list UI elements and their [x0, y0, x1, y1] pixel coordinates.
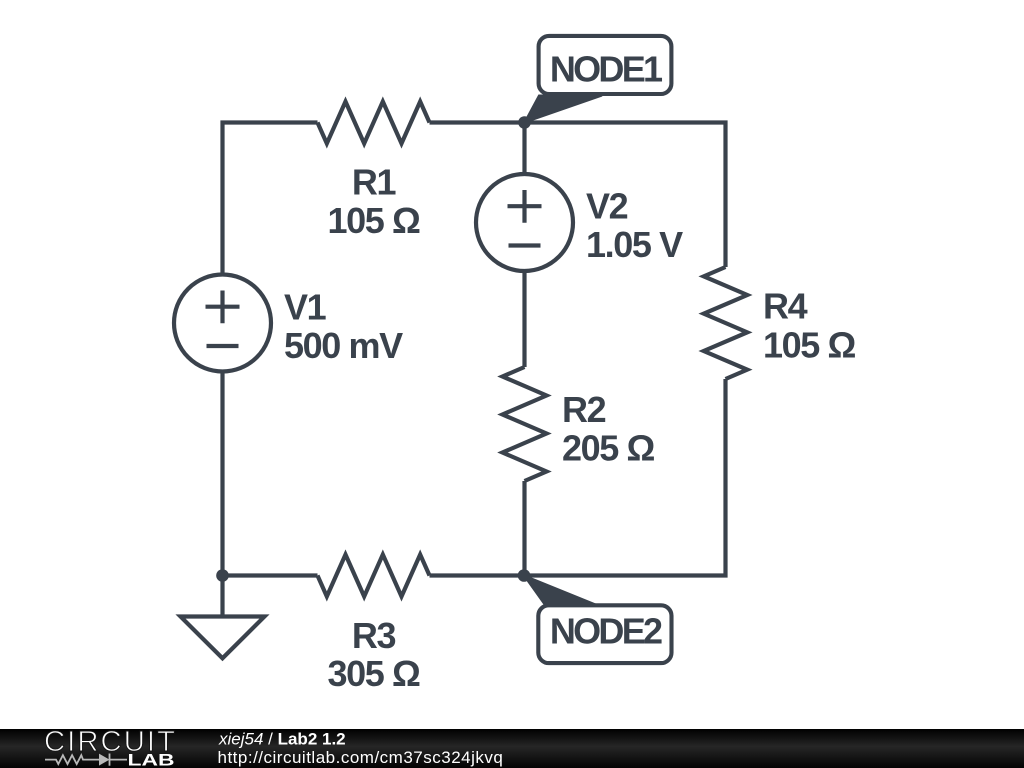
footer logo diode triangle — [99, 754, 110, 766]
svg-text:105 Ω: 105 Ω — [763, 325, 855, 366]
resistor R2 — [503, 367, 547, 481]
footer logo resistor-diode glyph — [45, 754, 127, 766]
label R1 value — [328, 162, 420, 242]
svg-text:V1: V1 — [284, 287, 327, 328]
voltage source V2 (circle) — [476, 174, 573, 271]
label V2 value — [586, 186, 683, 265]
wire middle bottom (R2 to NODE2) — [522, 481, 526, 576]
svg-text:R1: R1 — [352, 162, 397, 203]
wire ground stub — [220, 576, 224, 617]
svg-text:1.05 V: 1.05 V — [586, 224, 683, 265]
V1 plus sign — [206, 291, 240, 324]
svg-text:NODE1: NODE1 — [550, 49, 663, 90]
V2 minus sign — [509, 243, 541, 247]
label R2 value — [562, 389, 654, 468]
svg-text:xiej54 / Lab2 1.2: xiej54 / Lab2 1.2 — [218, 729, 346, 748]
wire bottom-left (R3 to left node) — [223, 573, 318, 577]
wire top-left (left vertical from V1 top up, then top horizontal to R1) — [223, 123, 318, 276]
ground symbol — [181, 617, 265, 659]
svg-text:500 mV: 500 mV — [284, 325, 403, 366]
NODE2 callout box — [538, 605, 671, 663]
svg-text:LAB: LAB — [128, 752, 175, 768]
voltage source V1 (circle) — [174, 275, 271, 372]
V2 plus sign — [508, 190, 542, 223]
footer bar — [0, 729, 1024, 768]
svg-text:305 Ω: 305 Ω — [328, 653, 420, 694]
svg-text:R2: R2 — [562, 389, 606, 430]
svg-text:R4: R4 — [763, 286, 808, 327]
svg-text:V2: V2 — [586, 186, 628, 227]
NODE1 callout wedge — [525, 96, 603, 123]
node junction dot at ground — [216, 569, 229, 582]
NODE1 callout box — [539, 36, 672, 94]
svg-text:205 Ω: 205 Ω — [562, 427, 654, 468]
wire middle top (NODE1 down to V2) — [522, 123, 526, 175]
resistor R4 — [704, 267, 748, 379]
svg-text:105 Ω: 105 Ω — [328, 200, 420, 241]
node junction dot NODE1 — [518, 116, 531, 129]
wire right-bottom (R4 down to bottom-right corner, then left to NODE2) — [430, 379, 726, 576]
resistor R3 — [318, 555, 430, 597]
svg-text:NODE2: NODE2 — [550, 611, 662, 652]
V1 minus sign — [207, 344, 239, 348]
NODE2 callout wedge — [524, 576, 597, 606]
label R4 value — [763, 286, 855, 366]
label V1 value — [284, 287, 403, 366]
svg-text:http://circuitlab.com/cm37sc32: http://circuitlab.com/cm37sc324jkvq — [218, 748, 504, 767]
resistor R1 — [318, 102, 430, 144]
wire middle (V2 bottom to R2) — [522, 271, 526, 367]
node junction dot NODE2 — [518, 569, 531, 582]
svg-text:R3: R3 — [352, 615, 396, 656]
label R3 value — [328, 615, 420, 694]
wire top-right (R1 to NODE1 to top-right corner, then down to R4) — [430, 123, 726, 268]
wire left vertical (V1 bottom down to ground node) — [220, 372, 224, 576]
